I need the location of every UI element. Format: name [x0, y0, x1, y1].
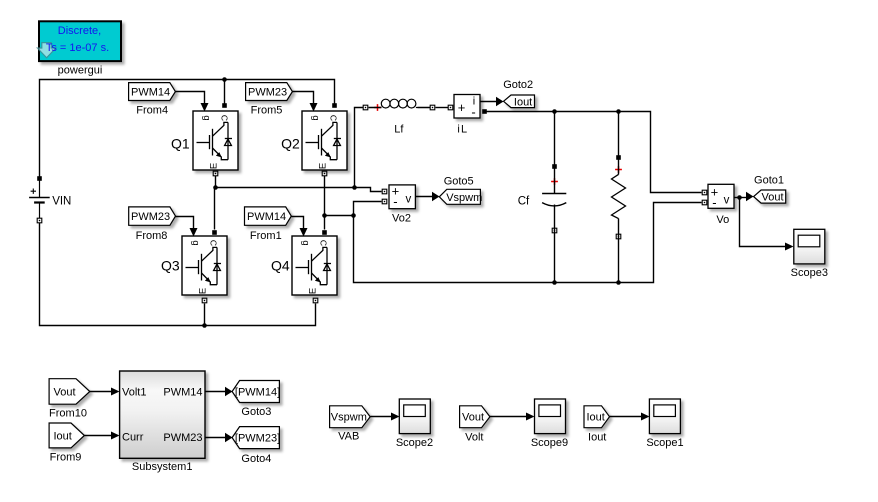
svg-text:Lf: Lf	[394, 123, 404, 135]
svg-text:Q1: Q1	[171, 135, 190, 151]
svg-text:Q3: Q3	[161, 257, 180, 273]
svg-text:Vspwm: Vspwm	[446, 192, 482, 204]
svg-text:g: g	[300, 240, 311, 245]
svg-text:Goto4: Goto4	[241, 453, 271, 465]
svg-text:v: v	[724, 194, 730, 206]
svg-text:Scope2: Scope2	[396, 437, 433, 449]
svg-text:iL: iL	[457, 123, 468, 135]
svg-text:PWM14: PWM14	[131, 87, 170, 99]
svg-text:v: v	[406, 193, 412, 205]
svg-text:From9: From9	[50, 452, 82, 464]
svg-text:Goto3: Goto3	[241, 406, 271, 418]
svg-text:Scope1: Scope1	[646, 437, 683, 449]
svg-text:g: g	[190, 240, 201, 245]
svg-text:Vout: Vout	[462, 412, 484, 424]
svg-text:Goto5: Goto5	[444, 176, 474, 188]
svg-text:Subsystem1: Subsystem1	[132, 461, 193, 473]
svg-text:C: C	[318, 240, 328, 246]
svg-text:Cf: Cf	[518, 196, 530, 208]
svg-text:-: -	[393, 194, 397, 209]
svg-text:Q2: Q2	[281, 135, 300, 151]
svg-text:[PWM14]: [PWM14]	[235, 387, 280, 399]
svg-text:-: -	[712, 195, 716, 210]
svg-text:Iout: Iout	[588, 432, 606, 444]
svg-text:Iout: Iout	[514, 96, 532, 108]
svg-text:E: E	[318, 163, 329, 169]
svg-text:g: g	[310, 115, 321, 120]
svg-text:Iout: Iout	[54, 431, 72, 443]
svg-text:PWM23: PWM23	[131, 211, 170, 223]
svg-text:From8: From8	[136, 230, 168, 242]
svg-text:Vo2: Vo2	[392, 213, 411, 225]
svg-text:Scope9: Scope9	[531, 437, 568, 449]
svg-text:PWM23: PWM23	[248, 87, 287, 99]
svg-text:Q4: Q4	[271, 257, 290, 273]
svg-text:Curr: Curr	[122, 432, 144, 444]
svg-text:Goto2: Goto2	[503, 79, 533, 91]
svg-text:C: C	[219, 115, 229, 121]
svg-text:Vo: Vo	[716, 214, 729, 226]
svg-text:Volt1: Volt1	[122, 387, 146, 399]
svg-text:PWM23: PWM23	[163, 432, 202, 444]
svg-text:VAB: VAB	[338, 431, 359, 443]
svg-text:g: g	[201, 115, 212, 120]
svg-text:Discrete,: Discrete,	[58, 25, 101, 37]
svg-text:Ts = 1e-07 s.: Ts = 1e-07 s.	[46, 42, 109, 54]
svg-text:Vspwm: Vspwm	[331, 412, 367, 424]
svg-text:Scope3: Scope3	[791, 267, 828, 279]
svg-text:From1: From1	[250, 230, 282, 242]
svg-text:E: E	[198, 288, 209, 294]
svg-text:+: +	[458, 100, 466, 115]
svg-text:powergui: powergui	[58, 65, 103, 77]
svg-text:[PWM23]: [PWM23]	[235, 433, 280, 445]
svg-text:Goto1: Goto1	[754, 174, 784, 186]
svg-text:From10: From10	[49, 408, 87, 420]
svg-text:From5: From5	[251, 105, 283, 117]
svg-text:VIN: VIN	[52, 195, 71, 207]
svg-text:Iout: Iout	[587, 412, 605, 424]
svg-text:-: -	[471, 105, 475, 120]
svg-text:C: C	[208, 240, 218, 246]
svg-text:E: E	[209, 163, 220, 169]
svg-text:Vout: Vout	[762, 192, 784, 204]
svg-text:E: E	[308, 288, 319, 294]
svg-text:Volt: Volt	[465, 432, 483, 444]
svg-text:Vout: Vout	[54, 387, 76, 399]
svg-text:From4: From4	[136, 105, 168, 117]
svg-text:PWM14: PWM14	[247, 211, 286, 223]
svg-text:C: C	[328, 115, 338, 121]
svg-text:PWM14: PWM14	[163, 387, 202, 399]
